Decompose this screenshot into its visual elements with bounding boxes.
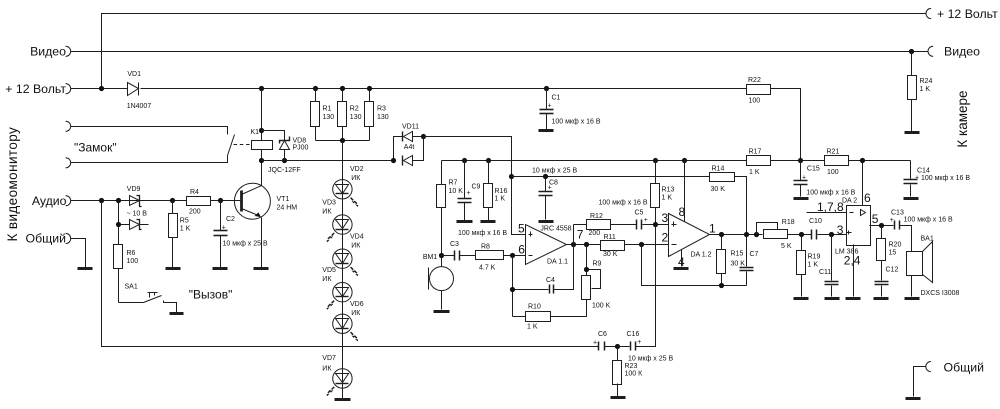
wire feedback DA1.2: [642, 245, 747, 286]
svg-text:DA 1.2: DA 1.2: [691, 252, 712, 259]
svg-text:VD11: VD11: [402, 123, 419, 130]
node rail/R1: [313, 86, 318, 91]
resistor R4 200: [187, 189, 242, 216]
svg-text:C2: C2: [226, 216, 235, 223]
svg-text:200: 200: [189, 209, 201, 216]
LED VD5 ИК: [322, 267, 352, 310]
wire DA1 pin 8: [684, 161, 686, 222]
ground (C2): [213, 267, 228, 270]
svg-text:5: 5: [872, 212, 879, 226]
node R16 top: [486, 158, 491, 163]
svg-text:DA 2: DA 2: [842, 198, 857, 205]
svg-text:+: +: [593, 340, 597, 347]
node +12V input / top rail: [99, 86, 104, 91]
ground (BA1): [905, 297, 920, 300]
ground (C11): [825, 297, 840, 300]
op-amp DA1.2: [662, 211, 712, 259]
svg-text:R23: R23: [625, 363, 638, 370]
svg-text:1N4007: 1N4007: [127, 103, 152, 110]
capacitor C2 10мкф x 25В: [214, 201, 268, 268]
svg-text:К видеомонитору: К видеомонитору: [5, 127, 20, 242]
capacitor C10: [809, 218, 847, 240]
node VD11 right: [421, 134, 426, 139]
svg-text:100 К: 100 К: [625, 371, 644, 378]
ground (C14): [904, 197, 919, 200]
svg-text:VD3: VD3: [322, 200, 336, 207]
svg-text:+: +: [222, 225, 226, 232]
wire замок bottom: [71, 156, 228, 163]
svg-text:Видео: Видео: [944, 45, 980, 59]
wire R22 to +V node: [771, 89, 801, 161]
svg-text:R6: R6: [127, 250, 136, 257]
svg-text:C12: C12: [886, 267, 899, 274]
svg-text:3: 3: [662, 211, 669, 225]
svg-text:~ 10 В: ~ 10 В: [127, 211, 148, 218]
svg-text:1 K: 1 K: [808, 262, 819, 269]
connector Замок top: [66, 121, 71, 131]
ground (C12): [874, 297, 889, 300]
resistor R3 130: [365, 89, 389, 141]
svg-text:R11: R11: [604, 234, 616, 241]
node C9 top: [462, 158, 467, 163]
switch blade (relay contact): [228, 135, 235, 156]
potentiometer R9 100K: [582, 245, 611, 310]
svg-text:ИК: ИК: [322, 276, 332, 283]
node pin8 tap: [682, 158, 687, 163]
zener pair VD9 ~10В: [119, 186, 149, 245]
node pin6: [510, 253, 515, 258]
ground (R19): [794, 297, 809, 300]
node audio/bus: [99, 198, 104, 203]
node R4/C2: [218, 198, 223, 203]
node R15/feedback: [719, 283, 724, 288]
resistor R16 1K: [484, 161, 508, 221]
svg-text:100: 100: [127, 258, 139, 265]
capacitor C16 10мкф x 25В: [618, 225, 674, 363]
svg-text:VT1: VT1: [277, 196, 290, 203]
svg-text:VD9: VD9: [127, 186, 141, 193]
resistor R10 1K: [513, 300, 587, 331]
node R9 wiper: [584, 267, 589, 272]
svg-text:15: 15: [889, 250, 897, 257]
resistor R13 1K: [651, 161, 675, 225]
resistor R1 130: [311, 89, 335, 141]
capacitor C5 100мкф x 16В: [599, 200, 669, 230]
svg-text:4: 4: [678, 255, 685, 269]
node pin2/feedback: [639, 242, 644, 247]
wire R1-R3 join: [316, 140, 370, 142]
node VD8 bottom: [282, 158, 287, 163]
svg-text:ИК: ИК: [351, 175, 361, 182]
svg-text:+: +: [644, 217, 648, 224]
svg-text:R20: R20: [889, 242, 902, 249]
op-amp DA1.1 JRC4558: [518, 222, 572, 266]
resistor R7 10K: [437, 161, 464, 256]
ground (C9): [457, 220, 473, 223]
node output/R18wiper: [754, 232, 759, 237]
svg-text:C9: C9: [472, 184, 481, 191]
svg-text:10 мкф x 25 В: 10 мкф x 25 В: [532, 168, 577, 175]
svg-text:7: 7: [577, 227, 584, 241]
svg-text:1: 1: [709, 222, 716, 236]
ground (LED chain): [335, 398, 351, 401]
ground (common left): [78, 267, 93, 270]
svg-text:10 мкф x 25 В: 10 мкф x 25 В: [628, 356, 673, 363]
wire op-amp V+ rail: [442, 160, 747, 162]
resistor R22 100: [747, 77, 771, 105]
svg-text:Общий: Общий: [944, 361, 985, 375]
svg-text:R4: R4: [190, 189, 199, 196]
node rail/R2: [340, 86, 345, 91]
microphone BM1: [423, 254, 454, 310]
svg-text:PJ00: PJ00: [293, 145, 309, 152]
svg-text:+: +: [915, 175, 919, 182]
svg-text:К камере: К камере: [955, 90, 970, 147]
svg-text:C1: C1: [552, 95, 561, 102]
node LED chain top: [340, 138, 345, 143]
wire common right: [914, 367, 926, 397]
speaker BA1 DXCS I3008: [907, 236, 960, 298]
svg-text:A4t: A4t: [404, 144, 415, 151]
ground (C15): [794, 197, 809, 200]
svg-text:R14: R14: [712, 166, 725, 173]
node pin3 DA1.2: [653, 222, 658, 227]
svg-text:R24: R24: [920, 78, 933, 85]
svg-text:10 K: 10 K: [449, 188, 464, 195]
svg-text:VD8: VD8: [293, 138, 307, 145]
node output/R15: [719, 232, 724, 237]
svg-text:100 мкф x 16 В: 100 мкф x 16 В: [921, 175, 970, 182]
svg-text:VD1: VD1: [127, 71, 141, 78]
resistor R24 1K: [908, 52, 933, 132]
svg-text:R15: R15: [731, 251, 744, 258]
svg-text:C5: C5: [635, 210, 644, 217]
wire common left: [71, 239, 86, 268]
svg-text:C13: C13: [891, 210, 904, 217]
svg-text:+: +: [637, 339, 641, 346]
node DA2 pin6 tap: [860, 158, 865, 163]
svg-text:VD2: VD2: [350, 166, 364, 173]
svg-text:VD7: VD7: [322, 355, 336, 362]
resistor R20 15: [877, 226, 902, 281]
svg-text:100: 100: [827, 169, 839, 176]
svg-text:130: 130: [350, 114, 362, 121]
node mic/R7: [439, 253, 444, 258]
svg-text:6: 6: [864, 191, 871, 205]
svg-text:BA1: BA1: [921, 236, 934, 243]
svg-text:JRC 4558: JRC 4558: [540, 225, 571, 232]
wire DA1.2 pin4: [681, 250, 683, 267]
svg-text:Видео: Видео: [30, 45, 66, 59]
svg-text:+ 12 Вольт: + 12 Вольт: [937, 7, 998, 21]
wire audio line: [71, 200, 187, 202]
svg-text:R18: R18: [782, 219, 795, 226]
svg-text:R1: R1: [323, 106, 332, 113]
connector Аудио (left): [66, 196, 71, 206]
svg-text:C7: C7: [750, 251, 759, 258]
resistor R5 1K: [169, 201, 191, 268]
node R19 top: [799, 232, 804, 237]
capacitor C15 100мкф x 16В: [794, 161, 856, 197]
node output/R9: [584, 242, 589, 247]
resistor R11 30K: [601, 234, 669, 258]
svg-text:Общий: Общий: [26, 232, 67, 246]
svg-text:200: 200: [589, 230, 601, 237]
capacitor C6: [593, 331, 618, 351]
wire K1 branch: [261, 89, 263, 141]
transistor VT1 24НМ: [234, 183, 297, 267]
svg-text:C6: C6: [598, 331, 607, 338]
svg-text:C14: C14: [917, 168, 930, 175]
svg-text:C15: C15: [807, 166, 820, 173]
wire LED chain: [342, 141, 344, 399]
svg-text:5 K: 5 K: [781, 243, 792, 250]
svg-text:1 K: 1 K: [749, 169, 760, 176]
connector Видео (left): [66, 46, 71, 56]
svg-text:30 K: 30 K: [731, 261, 746, 268]
svg-text:C3: C3: [450, 241, 459, 248]
svg-text:R10: R10: [528, 304, 541, 311]
svg-text:+: +: [548, 103, 552, 110]
resistor R19 1K: [797, 235, 821, 297]
svg-text:VD4: VD4: [350, 234, 364, 241]
node C11 top: [829, 232, 834, 237]
svg-text:1 K: 1 K: [920, 86, 931, 93]
wire DA2 output pin5: [870, 225, 894, 227]
svg-text:JQC-12FF: JQC-12FF: [268, 167, 301, 174]
capacitor C3: [442, 241, 476, 261]
svg-text:R5: R5: [180, 218, 189, 225]
ground (R23): [611, 396, 626, 399]
svg-text:ИК: ИК: [322, 366, 332, 373]
node C8 top: [543, 174, 548, 179]
wire Vref line: [512, 176, 710, 178]
svg-text:100 K: 100 K: [592, 303, 611, 310]
node rail/R3: [367, 86, 372, 91]
svg-text:DA 1.1: DA 1.1: [547, 259, 568, 266]
ground (DA2 pins 2,4): [846, 297, 861, 300]
wire DA2 pin6: [862, 161, 864, 206]
wire VD11 to DA1.1 pin5: [424, 137, 526, 235]
ground (C1): [539, 129, 554, 132]
svg-text:3: 3: [837, 223, 844, 237]
potentiometer R18 5K: [757, 219, 812, 250]
svg-text:K1: K1: [250, 129, 259, 136]
svg-text:R16: R16: [495, 188, 508, 195]
node pin5/R20: [879, 223, 884, 228]
capacitor C12: [875, 267, 899, 297]
LED VD6 ИК: [333, 301, 364, 342]
svg-text:1 K: 1 K: [662, 195, 673, 202]
svg-text:130: 130: [377, 114, 389, 121]
LED VD3 ИК: [322, 200, 352, 243]
svg-text:1 K: 1 K: [180, 226, 191, 233]
node relay bottom: [259, 158, 264, 163]
svg-text:30 K: 30 K: [711, 186, 726, 193]
capacitor C9 100мкф x 16В: [458, 161, 481, 221]
svg-text:100 мкф x 16 В: 100 мкф x 16 В: [552, 119, 601, 126]
svg-text:"Замок": "Замок": [74, 141, 117, 155]
svg-text:VD6: VD6: [350, 301, 364, 308]
diode VD8 PJ00: [262, 131, 309, 161]
svg-text:100: 100: [749, 98, 761, 105]
wire DA1.1 output: [567, 244, 601, 246]
resistor R8 4.7K: [476, 244, 526, 272]
ground (R16): [481, 220, 496, 223]
wire audio bottom bus: [102, 201, 599, 347]
wire DA2 pins 2,4 to ground: [853, 245, 855, 297]
svg-text:R22: R22: [748, 77, 761, 84]
amplifier DA2 LM386: [807, 198, 871, 268]
capacitor C14 100мкф x 16В: [904, 161, 971, 197]
svg-text:8: 8: [679, 205, 686, 219]
wire dashed relay link: [234, 144, 251, 146]
ground (common right): [906, 397, 921, 400]
node video/R24 junction: [909, 49, 914, 54]
svg-text:ИК: ИК: [322, 209, 332, 216]
wire top +12V rail to camera: [102, 14, 927, 89]
switch SA1: [119, 284, 177, 313]
svg-text:2,4: 2,4: [844, 254, 861, 268]
svg-text:R3: R3: [377, 106, 386, 113]
wire K1 to collector node: [261, 150, 263, 186]
svg-text:4.7 K: 4.7 K: [479, 265, 496, 272]
diode VD1 1N4007: [127, 71, 152, 110]
LED VD2 ИК: [333, 166, 364, 207]
svg-text:+: +: [548, 185, 552, 192]
svg-text:5: 5: [518, 222, 525, 236]
svg-text:1 K: 1 K: [527, 324, 538, 331]
capacitor C11: [819, 235, 839, 297]
connector Общий (right): [926, 362, 931, 372]
capacitor C1 100мкф x 16В: [540, 89, 601, 130]
node C6/C16/R23: [615, 344, 620, 349]
svg-text:100 мкф x 16 В: 100 мкф x 16 В: [599, 200, 648, 207]
node audio/VD9: [116, 198, 121, 203]
svg-text:R17: R17: [749, 149, 762, 156]
wire relay node to VD11: [262, 160, 394, 162]
svg-text:ИК: ИК: [351, 310, 361, 317]
svg-text:C4: C4: [546, 277, 555, 284]
wire Видео line: [71, 51, 929, 53]
capacitor C8 10мкф: [532, 168, 577, 220]
svg-text:+: +: [467, 190, 471, 197]
ground (VT1 emitter): [254, 267, 269, 270]
node +V filter: [798, 158, 803, 163]
svg-text:R8: R8: [481, 244, 490, 251]
svg-text:Аудио: Аудио: [32, 194, 67, 208]
svg-text:C10: C10: [809, 218, 822, 225]
svg-text:R12: R12: [590, 213, 603, 220]
ground (BM1): [434, 310, 450, 313]
wire замок top: [71, 127, 228, 135]
svg-text:1,7,8: 1,7,8: [817, 200, 844, 214]
svg-text:100 мкф x 16 В: 100 мкф x 16 В: [806, 190, 855, 197]
wire +12V input: [71, 88, 128, 90]
LED VD7 ИК: [322, 355, 352, 396]
LED VD4 ИК: [333, 234, 364, 277]
svg-text:R2: R2: [350, 106, 359, 113]
node output/R12: [571, 242, 576, 247]
node audio/R5: [170, 198, 175, 203]
svg-text:R21: R21: [827, 149, 840, 156]
svg-text:+: +: [890, 217, 894, 224]
ground (C8): [539, 220, 554, 223]
node rail/K1: [259, 86, 264, 91]
svg-text:6: 6: [518, 243, 525, 257]
node VD11 left: [391, 158, 396, 163]
svg-text:100 мкф x 16 В: 100 мкф x 16 В: [458, 230, 507, 237]
resistor R14 30K: [710, 166, 747, 235]
svg-text:C16: C16: [627, 331, 640, 338]
capacitor C13 100мкф x 16В: [890, 210, 953, 252]
resistor R23 100K: [613, 347, 644, 397]
resistor R17 1K: [747, 149, 825, 177]
node VD9/R6: [116, 222, 121, 227]
resistor R21 100: [825, 149, 911, 177]
svg-text:30 K: 30 K: [603, 251, 618, 258]
connector +12 Вольт (left): [66, 84, 71, 94]
node C4/pin6: [510, 287, 515, 292]
wire DA1.2 output: [710, 234, 763, 236]
connector Замок bottom: [66, 158, 71, 168]
ground (R24): [905, 131, 920, 134]
svg-text:R7: R7: [449, 180, 458, 187]
ground (DA1.2 pin4): [674, 267, 689, 270]
resistor R6 100: [114, 245, 139, 303]
svg-text:1 K: 1 K: [495, 195, 506, 202]
svg-text:R13: R13: [662, 187, 675, 194]
node R13 top: [653, 158, 658, 163]
resistor R2 130: [338, 89, 362, 141]
svg-text:SA1: SA1: [125, 284, 138, 291]
node Vref tap: [509, 174, 514, 179]
node K1 top: [259, 128, 264, 133]
node rail/C1: [544, 86, 549, 91]
resistor R15 30K: [717, 235, 746, 286]
svg-text:+ 12 Вольт: + 12 Вольт: [5, 82, 66, 96]
capacitor C7: [740, 235, 759, 286]
svg-text:C11: C11: [819, 269, 831, 276]
connector +12 Вольт (right): [926, 8, 931, 18]
svg-text:100 мкф x 16 В: 100 мкф x 16 В: [904, 217, 953, 224]
resistor R12 200: [574, 213, 637, 237]
connector Общий (left): [66, 233, 71, 243]
node output/C7: [744, 232, 749, 237]
svg-text:+: +: [802, 175, 806, 182]
svg-text:VD5: VD5: [322, 267, 336, 274]
svg-text:R19: R19: [808, 254, 821, 261]
ground (R5): [166, 267, 181, 270]
diode pair VD11 A4t: [394, 123, 424, 165]
svg-text:ИК: ИК: [351, 243, 361, 250]
capacitor C4: [513, 225, 574, 317]
relay coil K1 JQC-12FF: [250, 129, 300, 174]
wire +12V internal rail: [141, 88, 747, 90]
svg-text:R9: R9: [593, 261, 602, 268]
svg-text:24 НМ: 24 НМ: [277, 205, 298, 212]
svg-text:2: 2: [662, 230, 669, 244]
svg-text:130: 130: [323, 114, 335, 121]
svg-text:"Вызов": "Вызов": [189, 288, 233, 302]
connector Видео (right): [928, 46, 933, 56]
ground (SA1): [170, 312, 184, 315]
svg-text:BM1: BM1: [423, 254, 438, 261]
svg-text:DXCS I3008: DXCS I3008: [921, 290, 960, 297]
